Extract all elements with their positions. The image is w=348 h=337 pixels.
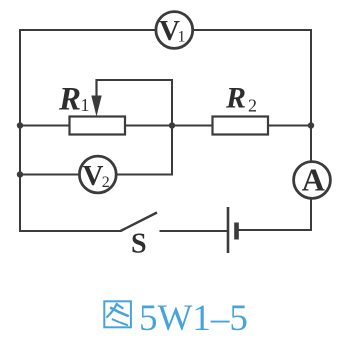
- node mid junction: [169, 122, 175, 128]
- wire battery to bottom right: [238, 229, 312, 231]
- wire rheostat wiper horizontal: [96, 79, 174, 81]
- wire right rail: [310, 29, 312, 231]
- ammeter A: [294, 162, 331, 199]
- node left-mid junction: [17, 122, 23, 128]
- resistor R2 box: [213, 117, 269, 135]
- wire R1 to mid node: [125, 125, 172, 127]
- svg-text:V: V: [83, 160, 104, 192]
- rheostat wiper arrow: [91, 79, 101, 117]
- node right junction: [308, 122, 314, 128]
- svg-text:R: R: [58, 82, 81, 118]
- label R2: [225, 82, 257, 116]
- svg-text:1: 1: [81, 95, 90, 115]
- svg-text:2: 2: [248, 96, 257, 116]
- wire left rail: [19, 29, 21, 232]
- wire R2 to right rail: [268, 125, 311, 127]
- wire bottom left to switch: [19, 230, 121, 232]
- svg-text:5W1–5: 5W1–5: [139, 298, 248, 337]
- wire V2 branch: [20, 174, 172, 176]
- resistor R1 box (rheostat): [70, 117, 126, 135]
- label R1: [58, 82, 90, 118]
- svg-text:S: S: [131, 229, 147, 260]
- svg-text:R: R: [225, 82, 246, 115]
- node left-V2 junction: [17, 171, 23, 177]
- svg-text:2: 2: [102, 174, 110, 191]
- wire switch to battery: [160, 230, 228, 232]
- battery short plate: [234, 223, 239, 240]
- caption glyph "tu" (diagram): [104, 301, 131, 327]
- svg-text:A: A: [302, 162, 325, 198]
- voltmeter V2: [79, 156, 116, 193]
- wire middle rail left (to R1): [20, 125, 70, 127]
- voltmeter V1: [156, 12, 193, 49]
- wire mid node to R2: [172, 125, 213, 127]
- wire top rail: [20, 29, 311, 31]
- wire mid vertical (wiper down to V2 wire): [171, 79, 173, 176]
- battery long plate: [227, 207, 230, 253]
- svg-text:1: 1: [178, 29, 186, 46]
- switch S blade: [121, 213, 158, 232]
